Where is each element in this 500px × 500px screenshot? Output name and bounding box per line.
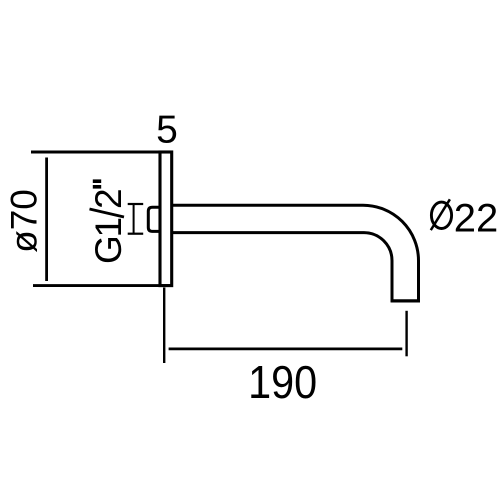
svg-text:ø70: ø70 xyxy=(3,189,44,253)
thread extent bracket xyxy=(133,204,135,234)
svg-text:G: G xyxy=(88,235,129,264)
spout tube outer contour xyxy=(173,205,419,302)
spout tube inner contour xyxy=(173,233,392,303)
label 022 (tube diameter): drawn O-slash + text 22 xyxy=(431,202,451,228)
svg-text:22: 22 xyxy=(454,196,499,240)
G1/2 thread stub xyxy=(148,207,161,231)
label G1/2" (thread, rotated) xyxy=(88,179,129,264)
extension line top (o70) xyxy=(31,151,173,154)
svg-text:2: 2 xyxy=(88,188,129,209)
svg-text:5: 5 xyxy=(156,108,178,151)
dimension line o70 xyxy=(45,158,48,282)
svg-text:1: 1 xyxy=(88,217,129,238)
dimension line 190 xyxy=(169,347,403,350)
extension line bottom (o70) xyxy=(33,284,173,287)
svg-text:190: 190 xyxy=(248,356,317,408)
label o70 (flange diameter, rotated) xyxy=(3,189,44,253)
extension line right (190) xyxy=(405,311,407,357)
wall flange plate (side view) xyxy=(160,152,172,286)
extension line left (190) xyxy=(163,288,165,364)
spout end cap xyxy=(391,299,420,302)
